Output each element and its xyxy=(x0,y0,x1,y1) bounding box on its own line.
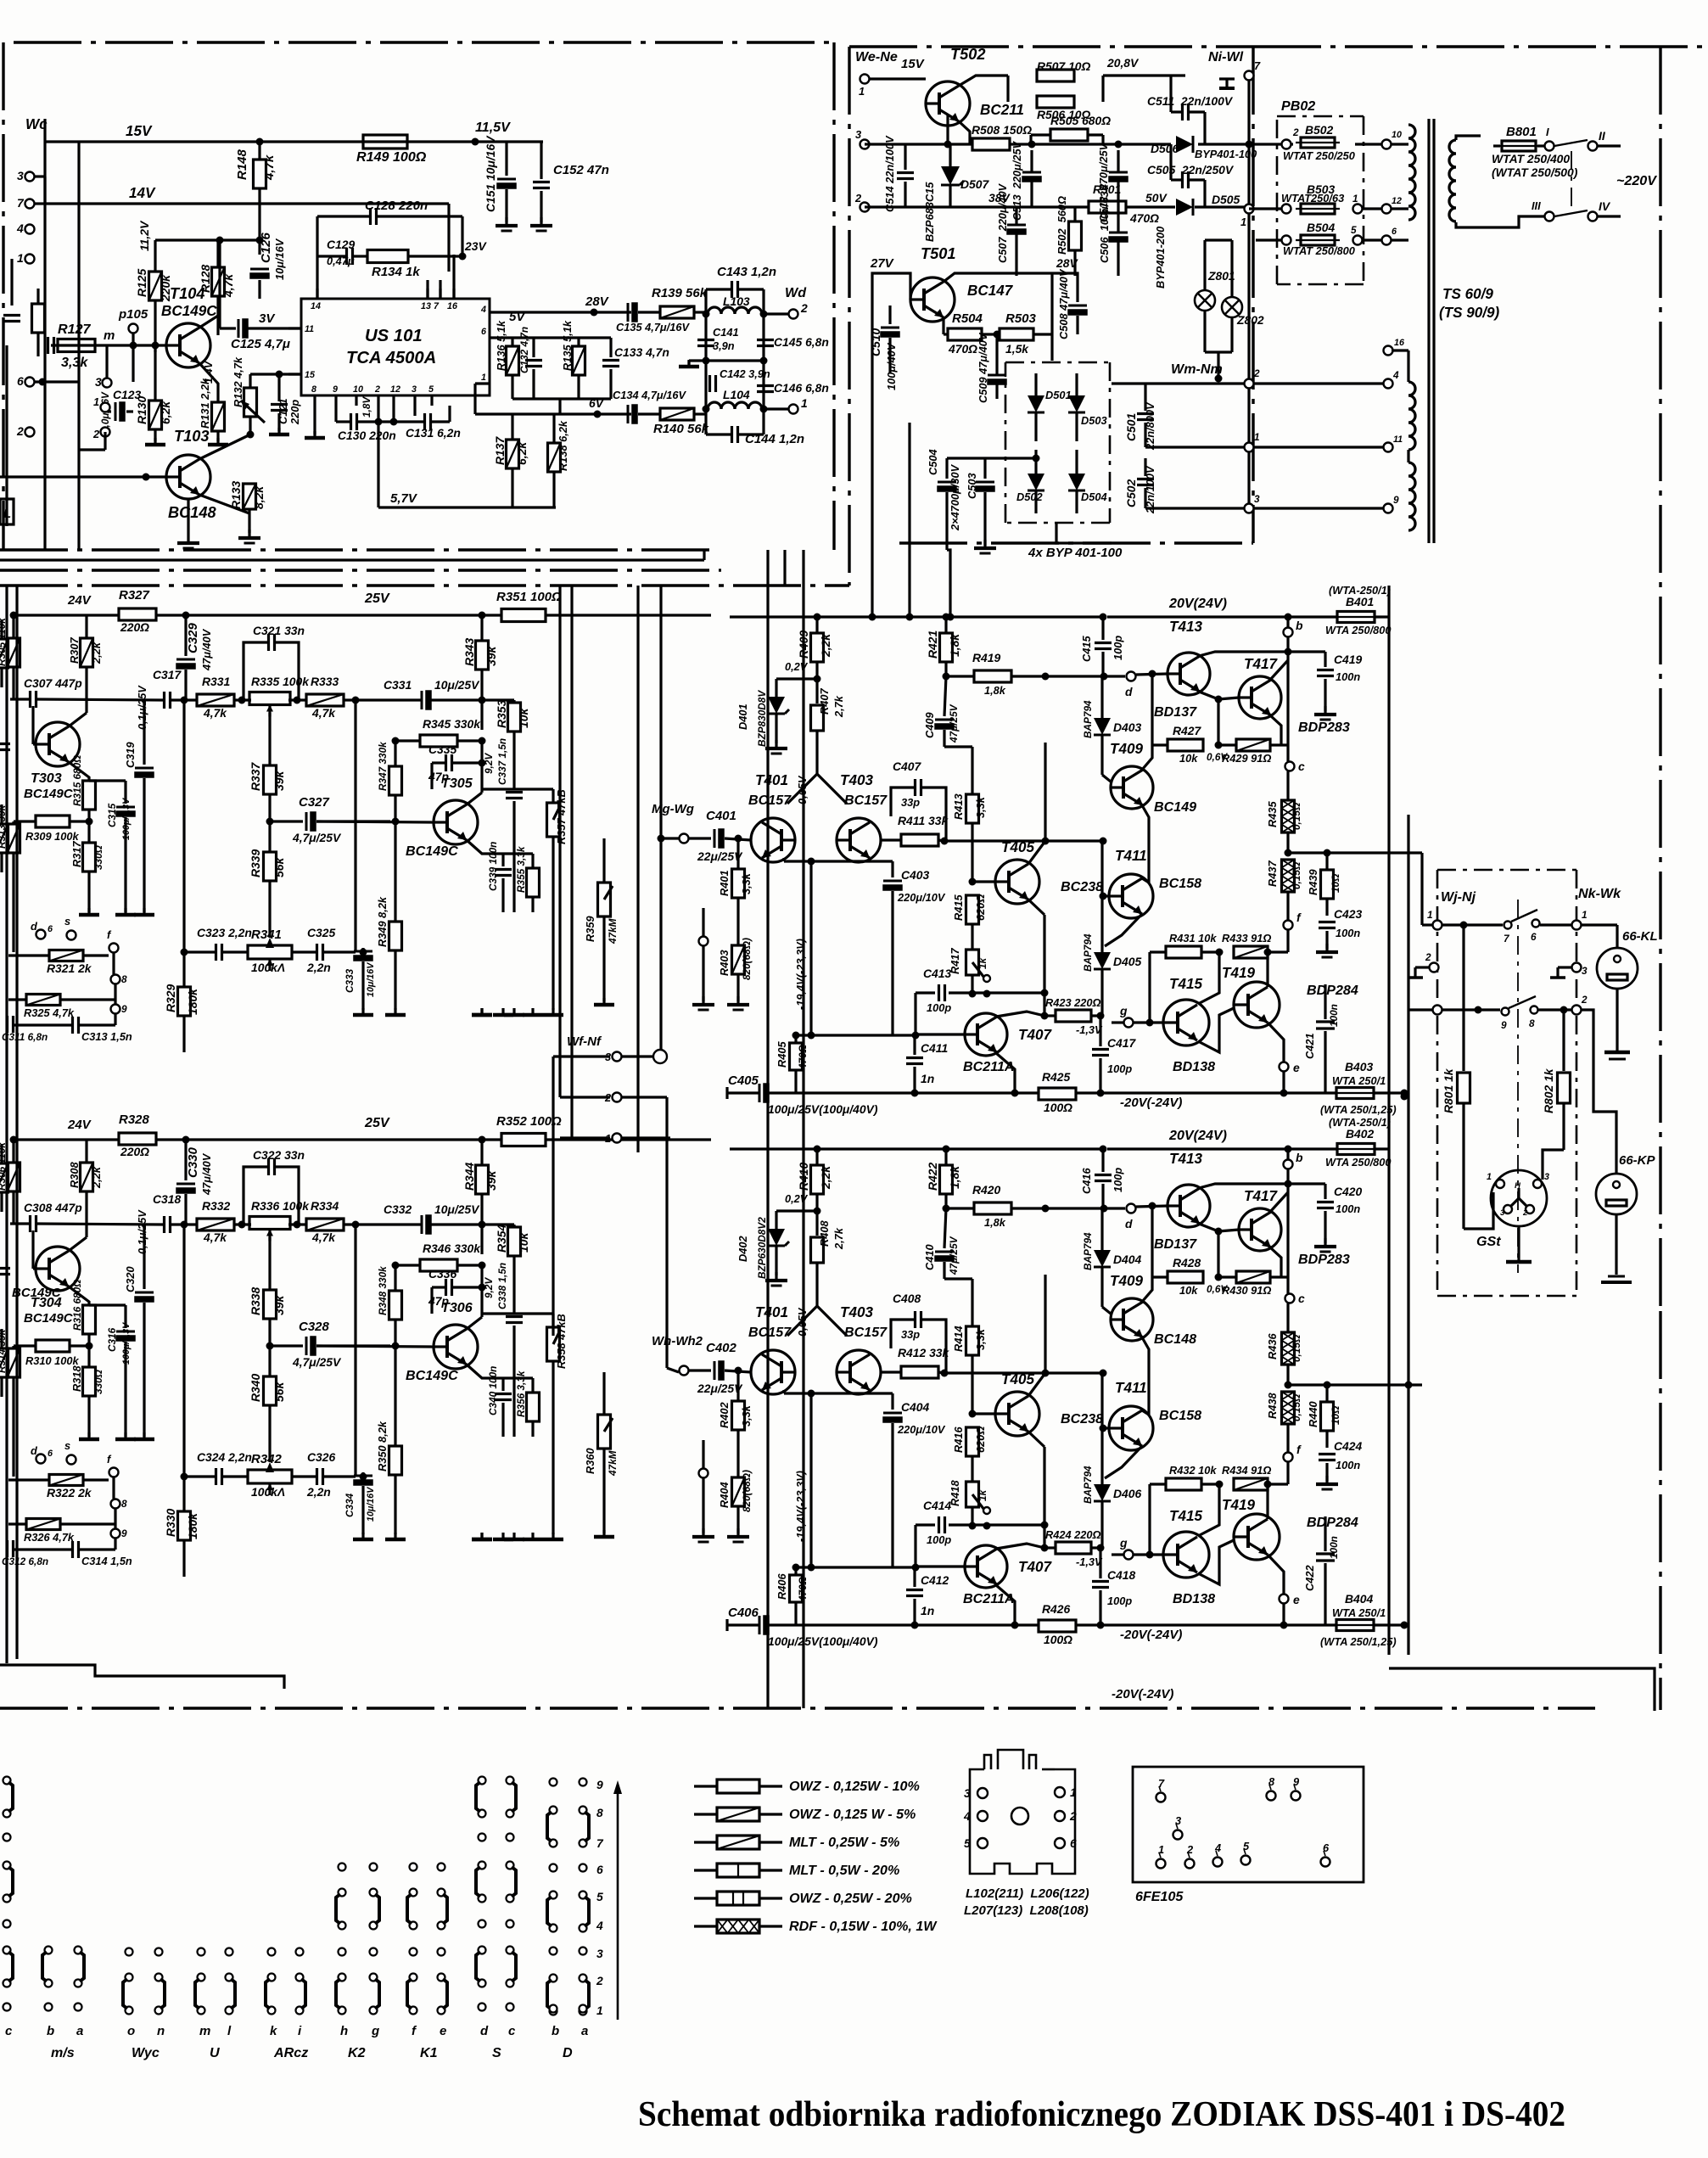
svg-text:4,7k: 4,7k xyxy=(311,706,336,720)
resistor R412 33k xyxy=(901,1366,938,1378)
resistor R304 (cut at edge) xyxy=(0,1163,8,1192)
resistor R330 180k xyxy=(178,1511,191,1540)
transistor T407 BC211A xyxy=(965,1545,1007,1588)
ground xyxy=(505,217,507,226)
resistor R344 39k xyxy=(476,1165,489,1194)
svg-text:8: 8 xyxy=(311,384,316,395)
transformer core line 2 xyxy=(1432,119,1435,543)
svg-text:12: 12 xyxy=(390,384,400,395)
transistor T401 BC157 xyxy=(751,1350,795,1394)
capacitor C407 33p xyxy=(914,779,916,796)
svg-text:R355 3,3k: R355 3,3k xyxy=(515,845,527,893)
node Wd 2 xyxy=(789,310,798,319)
svg-text:C514 22n/100V: C514 22n/100V xyxy=(883,135,896,212)
svg-text:3: 3 xyxy=(17,169,24,182)
svg-text:T417: T417 xyxy=(1244,656,1278,672)
wire vertical x752 xyxy=(636,586,639,1152)
wire row1 xyxy=(1442,923,1503,926)
resistor R325 4,7k xyxy=(26,995,60,1006)
svg-text:BC211: BC211 xyxy=(980,102,1024,118)
wire lamp bottom xyxy=(1205,350,1232,353)
resistor R409 2,2k xyxy=(811,633,824,662)
wire T103 base line xyxy=(0,475,166,478)
svg-text:7: 7 xyxy=(596,1836,604,1850)
svg-text:R330: R330 xyxy=(164,1509,177,1537)
node f xyxy=(1284,1453,1293,1462)
svg-text:4: 4 xyxy=(480,305,486,315)
wire T501 emitter xyxy=(942,317,944,334)
svg-text:D: D xyxy=(563,2045,573,2060)
svg-text:100μ/40V: 100μ/40V xyxy=(885,342,898,390)
svg-text:0,15Ω: 0,15Ω xyxy=(1291,862,1302,889)
svg-text:0,2V: 0,2V xyxy=(785,660,809,673)
svg-text:R404: R404 xyxy=(718,1482,731,1508)
svg-text:Schemat odbiornika radiofonicz: Schemat odbiornika radiofonicznego ZODIA… xyxy=(638,2095,1565,2134)
svg-text:2: 2 xyxy=(1253,367,1260,379)
wire T409 emitter xyxy=(1142,1337,1149,1415)
svg-text:2,2k: 2,2k xyxy=(819,633,832,658)
node b xyxy=(1284,1160,1293,1169)
svg-text:C333: C333 xyxy=(344,968,356,993)
svg-text:100μ/25V(100μ/40V): 100μ/25V(100μ/40V) xyxy=(768,1102,878,1116)
svg-text:25V: 25V xyxy=(364,1115,390,1130)
capacitor C415 100p xyxy=(1095,642,1112,644)
ground C504 xyxy=(983,540,986,548)
capacitor C402 22u/25V xyxy=(714,1361,716,1380)
svg-text:9: 9 xyxy=(1393,494,1399,506)
ground xyxy=(531,1008,534,1015)
svg-text:220Ω: 220Ω xyxy=(120,620,149,634)
resistor R128 4,7k xyxy=(212,267,225,296)
wire: bottom right corner step xyxy=(1389,1668,1655,1711)
transistor T405 BC238 xyxy=(995,860,1039,904)
pin 13 US101 xyxy=(426,289,428,299)
svg-text:C511 22n/100V: C511 22n/100V xyxy=(1147,94,1234,108)
svg-text:C323 2,2n: C323 2,2n xyxy=(197,926,252,939)
wire vertical x779 (input feed) xyxy=(659,586,662,1050)
svg-text:3,9n: 3,9n xyxy=(713,339,735,352)
svg-text:3: 3 xyxy=(1544,1172,1549,1182)
capacitor C320 xyxy=(135,1292,154,1294)
wire T405 emitter xyxy=(1028,1432,1044,1447)
ground xyxy=(512,1533,515,1539)
svg-text:100p: 100p xyxy=(1107,1595,1132,1607)
node III xyxy=(1545,212,1554,221)
svg-text:T407: T407 xyxy=(1018,1559,1052,1575)
svg-text:WTA 250/800: WTA 250/800 xyxy=(1325,624,1392,636)
svg-text:11: 11 xyxy=(305,324,314,334)
wire -20V rail (B404) xyxy=(725,1619,728,1631)
svg-text:OWZ - 0,125W - 10%: OWZ - 0,125W - 10% xyxy=(789,1779,920,1794)
svg-text:R405: R405 xyxy=(776,1041,788,1068)
svg-text:WTA 250/1: WTA 250/1 xyxy=(1332,1074,1386,1087)
svg-text:1k: 1k xyxy=(977,956,988,969)
svg-text:C335: C335 xyxy=(428,743,456,756)
svg-text:10: 10 xyxy=(1392,130,1402,140)
svg-text:7: 7 xyxy=(434,301,440,311)
svg-text:BC149C: BC149C xyxy=(24,1311,74,1326)
capacitor C512 470u/25V xyxy=(1109,171,1128,174)
switch contact 7-6 xyxy=(1504,922,1512,929)
svg-text:100n: 100n xyxy=(1336,670,1360,683)
wire exit a xyxy=(766,550,769,1708)
connector D circles xyxy=(550,1864,557,1872)
wire T405 base xyxy=(972,880,995,883)
wire T409 base xyxy=(1102,775,1111,782)
wire T413 collector xyxy=(1199,1184,1288,1188)
svg-text:p105: p105 xyxy=(118,307,148,322)
svg-text:14V: 14V xyxy=(129,185,156,201)
connector column c bracket xyxy=(3,1862,11,1869)
svg-text:L207(123) L208(108): L207(123) L208(108) xyxy=(964,1903,1089,1918)
svg-text:1: 1 xyxy=(93,395,99,408)
node 9 xyxy=(111,1529,120,1539)
junction xyxy=(143,474,150,481)
fuse B504 xyxy=(1301,235,1335,245)
pin 2 US101 xyxy=(377,395,379,406)
ground xyxy=(1324,706,1326,715)
pin 3 US101 xyxy=(413,395,416,406)
svg-text:5: 5 xyxy=(1351,224,1357,236)
svg-text:C325: C325 xyxy=(307,926,335,939)
wire Wf-Nf row1 xyxy=(560,1136,610,1139)
resistor R407 2,7k xyxy=(811,705,824,731)
junction xyxy=(814,1208,821,1215)
svg-text:T401: T401 xyxy=(755,772,788,788)
pin 4 6FE105 xyxy=(1213,1858,1223,1867)
wire: power block right border (dash-dot) xyxy=(1252,47,1254,543)
svg-text:R413: R413 xyxy=(952,793,965,820)
svg-text:BC238: BC238 xyxy=(1061,1411,1103,1427)
wire T305 base xyxy=(316,1346,434,1347)
pin 1 6FE105 xyxy=(1156,1859,1166,1869)
wire R801 column xyxy=(1462,925,1464,1071)
wire b column xyxy=(1286,652,1289,761)
wire lamp top xyxy=(1205,238,1232,241)
pin 16 US101 xyxy=(452,289,455,299)
pin 4 coil former xyxy=(977,1811,988,1821)
node 3 xyxy=(860,140,870,149)
resistor R421 1,8k xyxy=(940,633,953,662)
capacitor C141 3,9n xyxy=(697,339,714,341)
svg-text:MLT - 0,25W - 5%: MLT - 0,25W - 5% xyxy=(789,1835,899,1850)
resistor R354 10k xyxy=(508,1227,521,1256)
wire T103 collector xyxy=(199,434,250,459)
svg-text:3: 3 xyxy=(1582,965,1588,977)
svg-text:R328: R328 xyxy=(119,1113,150,1127)
svg-text:BAP794: BAP794 xyxy=(1082,1466,1094,1504)
node 4 xyxy=(25,225,35,234)
svg-text:L103: L103 xyxy=(723,294,750,308)
svg-text:C412: C412 xyxy=(921,1573,949,1587)
pin 15 US101 xyxy=(288,373,301,375)
svg-text:C507 220μ/40V: C507 220μ/40V xyxy=(996,182,1009,263)
resistor R349 8,2k xyxy=(389,922,402,950)
svg-text:T401: T401 xyxy=(755,1304,788,1320)
svg-text:100n: 100n xyxy=(1336,1459,1360,1471)
svg-text:K2: K2 xyxy=(348,2045,366,2060)
svg-text:R332: R332 xyxy=(202,1199,230,1213)
connector Wyc bracket right xyxy=(155,1974,163,1981)
svg-text:R326 4,7k: R326 4,7k xyxy=(24,1531,75,1544)
junction xyxy=(238,1221,246,1229)
wire T411 base stub xyxy=(1103,1427,1109,1429)
svg-text:180k: 180k xyxy=(186,1512,199,1539)
svg-text:B404: B404 xyxy=(1345,1592,1373,1606)
capacitor C331 10u/25V xyxy=(421,691,423,709)
wire T407 emitter xyxy=(996,1053,1015,1093)
fuse B502 xyxy=(1301,137,1335,148)
svg-text:Z802: Z802 xyxy=(1236,313,1264,327)
svg-text:100n: 100n xyxy=(1328,1536,1340,1559)
svg-text:R802 1k: R802 1k xyxy=(1542,1068,1555,1113)
resistor R148 xyxy=(254,160,266,188)
transistor T407 BC211A xyxy=(965,1013,1007,1056)
resistor R312 (cut at edge) xyxy=(0,1348,8,1377)
svg-text:R137: R137 xyxy=(493,436,507,465)
junction xyxy=(735,1367,742,1375)
svg-text:1: 1 xyxy=(1254,431,1260,443)
junction xyxy=(814,614,821,621)
capacitor C332 10u/25V xyxy=(421,1215,423,1234)
svg-text:MLT - 0,5W - 20%: MLT - 0,5W - 20% xyxy=(789,1863,899,1878)
svg-text:11,2V: 11,2V xyxy=(137,220,151,251)
svg-text:C339 100n: C339 100n xyxy=(487,842,499,891)
wire collector bus xyxy=(784,1392,893,1394)
svg-text:Wyc: Wyc xyxy=(132,2045,160,2060)
capacitor C502 22n/100V xyxy=(1137,478,1154,480)
svg-text:Ni-Wl: Ni-Wl xyxy=(1208,49,1244,64)
svg-text:C131 6,2n: C131 6,2n xyxy=(406,426,461,440)
svg-text:1: 1 xyxy=(1070,1785,1077,1799)
svg-text:1,8V: 1,8V xyxy=(361,396,372,418)
svg-text:20V(24V): 20V(24V) xyxy=(1168,1128,1227,1143)
wire: bottom border of IF block (dash-dot) xyxy=(0,548,711,551)
legend resistor symbol MLT - 0,25W - 5% xyxy=(694,1841,717,1843)
svg-text:R339: R339 xyxy=(249,849,262,877)
ground xyxy=(702,1528,704,1537)
wire stub 7 xyxy=(34,202,45,205)
node f xyxy=(109,944,119,953)
svg-text:R424 220Ω: R424 220Ω xyxy=(1045,1528,1101,1541)
ground xyxy=(736,1528,739,1537)
transistor T502 BC211 xyxy=(926,81,970,126)
wire T419 collector xyxy=(1266,1484,1268,1519)
switch III-IV xyxy=(1554,210,1588,216)
wire pin7-14V xyxy=(439,280,441,299)
bridge border (dash-dot) xyxy=(1005,362,1110,364)
svg-text:~220V: ~220V xyxy=(1616,173,1657,188)
connector K1 bracket left xyxy=(410,1889,417,1897)
wire: left border dash-dot xyxy=(2,42,4,550)
svg-text:C508 47μ/40V: C508 47μ/40V xyxy=(1057,268,1070,339)
capacitor C324 2,2n xyxy=(215,1468,217,1485)
svg-text:C415: C415 xyxy=(1080,636,1093,662)
wire T303 collector xyxy=(69,713,87,726)
wire power to amp 2 xyxy=(908,586,910,617)
svg-text:1,8k: 1,8k xyxy=(984,1216,1006,1229)
wire VAS bus xyxy=(944,839,1103,842)
transistor T303 BC149C xyxy=(36,722,80,766)
capacitor C338 1,5n xyxy=(506,1315,523,1318)
ground xyxy=(480,1008,483,1015)
resistor R439 10Ω xyxy=(1321,870,1334,899)
svg-text:Wd: Wd xyxy=(785,285,807,300)
node 1 (Nk) xyxy=(1572,921,1582,930)
wire left drop xyxy=(182,1225,185,1477)
wire VAS column xyxy=(1044,743,1046,841)
DIN socket GSt xyxy=(1491,1170,1547,1226)
svg-text:o: o xyxy=(127,2024,135,2038)
svg-text:C409: C409 xyxy=(923,712,936,738)
resistor R305 110k xyxy=(8,638,20,667)
svg-text:D402: D402 xyxy=(736,1236,749,1262)
svg-text:TCA 4500A: TCA 4500A xyxy=(346,349,436,367)
wire: preamp block border line 2 (dash-dot) xyxy=(0,584,849,586)
connector D bracket right xyxy=(580,1807,587,1814)
ground xyxy=(775,1272,777,1281)
ground xyxy=(277,428,280,434)
svg-text:C312 6,8n: C312 6,8n xyxy=(2,1555,48,1567)
svg-text:C421: C421 xyxy=(1303,1033,1316,1059)
svg-text:22n/800V: 22n/800V xyxy=(1144,401,1156,451)
transistor T419 BDP284 xyxy=(1234,982,1280,1028)
svg-text:2: 2 xyxy=(1186,1843,1193,1856)
pin 12 US101 xyxy=(392,395,395,406)
wire T407 collector xyxy=(996,1012,1044,1017)
junction xyxy=(1042,1205,1050,1213)
svg-text:5,7V: 5,7V xyxy=(390,491,418,506)
svg-text:C317: C317 xyxy=(153,668,182,681)
svg-text:R348 330k: R348 330k xyxy=(377,1265,389,1315)
svg-text:R504: R504 xyxy=(952,311,983,326)
ground xyxy=(480,1533,483,1539)
wire 27V xyxy=(872,273,910,300)
resistor R433 91Ω xyxy=(1234,946,1268,958)
coil former outline L102/L206 xyxy=(970,1769,1075,1874)
svg-text:T403: T403 xyxy=(840,772,873,788)
capacitor C123 1,0u/16V xyxy=(115,402,117,421)
resistor R316 680Ω xyxy=(83,1305,96,1334)
svg-text:B801: B801 xyxy=(1506,125,1537,139)
diode D405 BAP794 xyxy=(1094,952,1111,969)
pin 3 6FE105 xyxy=(1173,1830,1183,1840)
wire: top border of IF/decoder block (dash-dot) xyxy=(14,41,834,43)
svg-text:Wj-Nj: Wj-Nj xyxy=(1441,889,1476,905)
wire T413 emitter xyxy=(1199,1224,1218,1231)
capacitor C312 6,8n xyxy=(6,1540,8,1557)
svg-text:C314 1,5n: C314 1,5n xyxy=(81,1555,132,1567)
svg-text:C503: C503 xyxy=(966,473,978,499)
svg-text:b: b xyxy=(1296,1151,1303,1164)
connector Wyc bracket left xyxy=(126,1974,133,1981)
svg-text:220μ/10V: 220μ/10V xyxy=(897,891,946,904)
wire VAS column xyxy=(1044,1275,1046,1373)
svg-text:13: 13 xyxy=(421,301,431,311)
svg-text:C413: C413 xyxy=(923,967,951,980)
wire pin9 down xyxy=(334,406,337,422)
svg-text:11,5V: 11,5V xyxy=(475,120,511,135)
transistor T304 BC149C xyxy=(36,1247,80,1291)
svg-text:T501: T501 xyxy=(921,245,955,262)
svg-text:-1,3V: -1,3V xyxy=(1076,1555,1103,1568)
svg-text:D403: D403 xyxy=(1113,720,1141,734)
svg-text:6: 6 xyxy=(1531,931,1537,943)
wire T501 base xyxy=(909,298,911,300)
svg-text:BC157: BC157 xyxy=(844,793,888,808)
capacitor C405 xyxy=(759,1084,761,1102)
connector U circles xyxy=(198,1948,205,1956)
resistor R139 56k xyxy=(660,306,694,318)
resistor R432 10k xyxy=(1166,1478,1201,1490)
ground xyxy=(531,1533,534,1539)
svg-text:US 101: US 101 xyxy=(365,327,423,345)
svg-text:28V: 28V xyxy=(1056,256,1078,270)
connector ARcz bracket right xyxy=(296,1974,304,1981)
svg-text:BD138: BD138 xyxy=(1173,1059,1215,1074)
resistor R424 220Ω xyxy=(1056,1542,1091,1554)
svg-text:100p: 100p xyxy=(927,1001,951,1014)
svg-text:C144 1,2n: C144 1,2n xyxy=(745,432,804,446)
svg-text:R318: R318 xyxy=(70,1365,83,1392)
ground xyxy=(552,1008,554,1015)
wire T303 base xyxy=(31,706,34,744)
capacitor C316 100u/6,3V xyxy=(116,1331,135,1333)
svg-text:9: 9 xyxy=(333,384,338,395)
capacitor C126 10u/16V xyxy=(250,268,269,271)
resistor R334 4,7k xyxy=(306,1219,344,1230)
wire T419 collector xyxy=(1266,952,1268,987)
svg-text:R427: R427 xyxy=(1173,724,1201,737)
wire Wc vertical xyxy=(43,119,46,550)
ground xyxy=(124,908,126,915)
svg-text:WTA 250/1: WTA 250/1 xyxy=(1332,1606,1386,1619)
svg-text:C142 3,9n: C142 3,9n xyxy=(720,367,770,380)
pin 3 coil former xyxy=(977,1788,988,1798)
svg-text:T415: T415 xyxy=(1169,976,1202,992)
capacitor C504 2x4700u/30V xyxy=(938,481,956,484)
capacitor C339 100n xyxy=(495,868,512,871)
wire pin13 up xyxy=(426,280,428,299)
wire T501 collector xyxy=(944,273,1052,282)
wire exit c xyxy=(802,550,804,1708)
connector D circles xyxy=(550,1779,557,1786)
svg-text:2: 2 xyxy=(16,424,24,438)
svg-text:5: 5 xyxy=(964,1836,971,1850)
ground xyxy=(216,438,219,445)
svg-text:33p: 33p xyxy=(901,796,920,809)
node IV xyxy=(1588,212,1598,221)
resistor (left edge) xyxy=(32,304,45,333)
svg-text:R345 330k: R345 330k xyxy=(423,717,481,731)
transistor T415 BD138 xyxy=(1163,1532,1209,1578)
wire primary top xyxy=(1454,138,1457,141)
svg-text:2: 2 xyxy=(800,301,808,315)
svg-text:56k: 56k xyxy=(272,857,286,877)
fuse B403 xyxy=(1336,1088,1374,1099)
transistor T403 BC157 xyxy=(837,818,881,862)
svg-text:R503: R503 xyxy=(1005,311,1037,326)
wire T413 emitter drop xyxy=(1217,1231,1219,1277)
svg-text:C308 447p: C308 447p xyxy=(24,1201,82,1214)
svg-text:R421: R421 xyxy=(926,631,939,659)
svg-text:C416: C416 xyxy=(1080,1168,1093,1194)
connector ARcz bracket left xyxy=(268,1974,276,1981)
svg-text:R343: R343 xyxy=(462,638,476,666)
wire input bus xyxy=(10,1222,29,1225)
svg-text:R356 3,3k: R356 3,3k xyxy=(515,1370,527,1417)
lamp Z802 xyxy=(1222,297,1242,317)
